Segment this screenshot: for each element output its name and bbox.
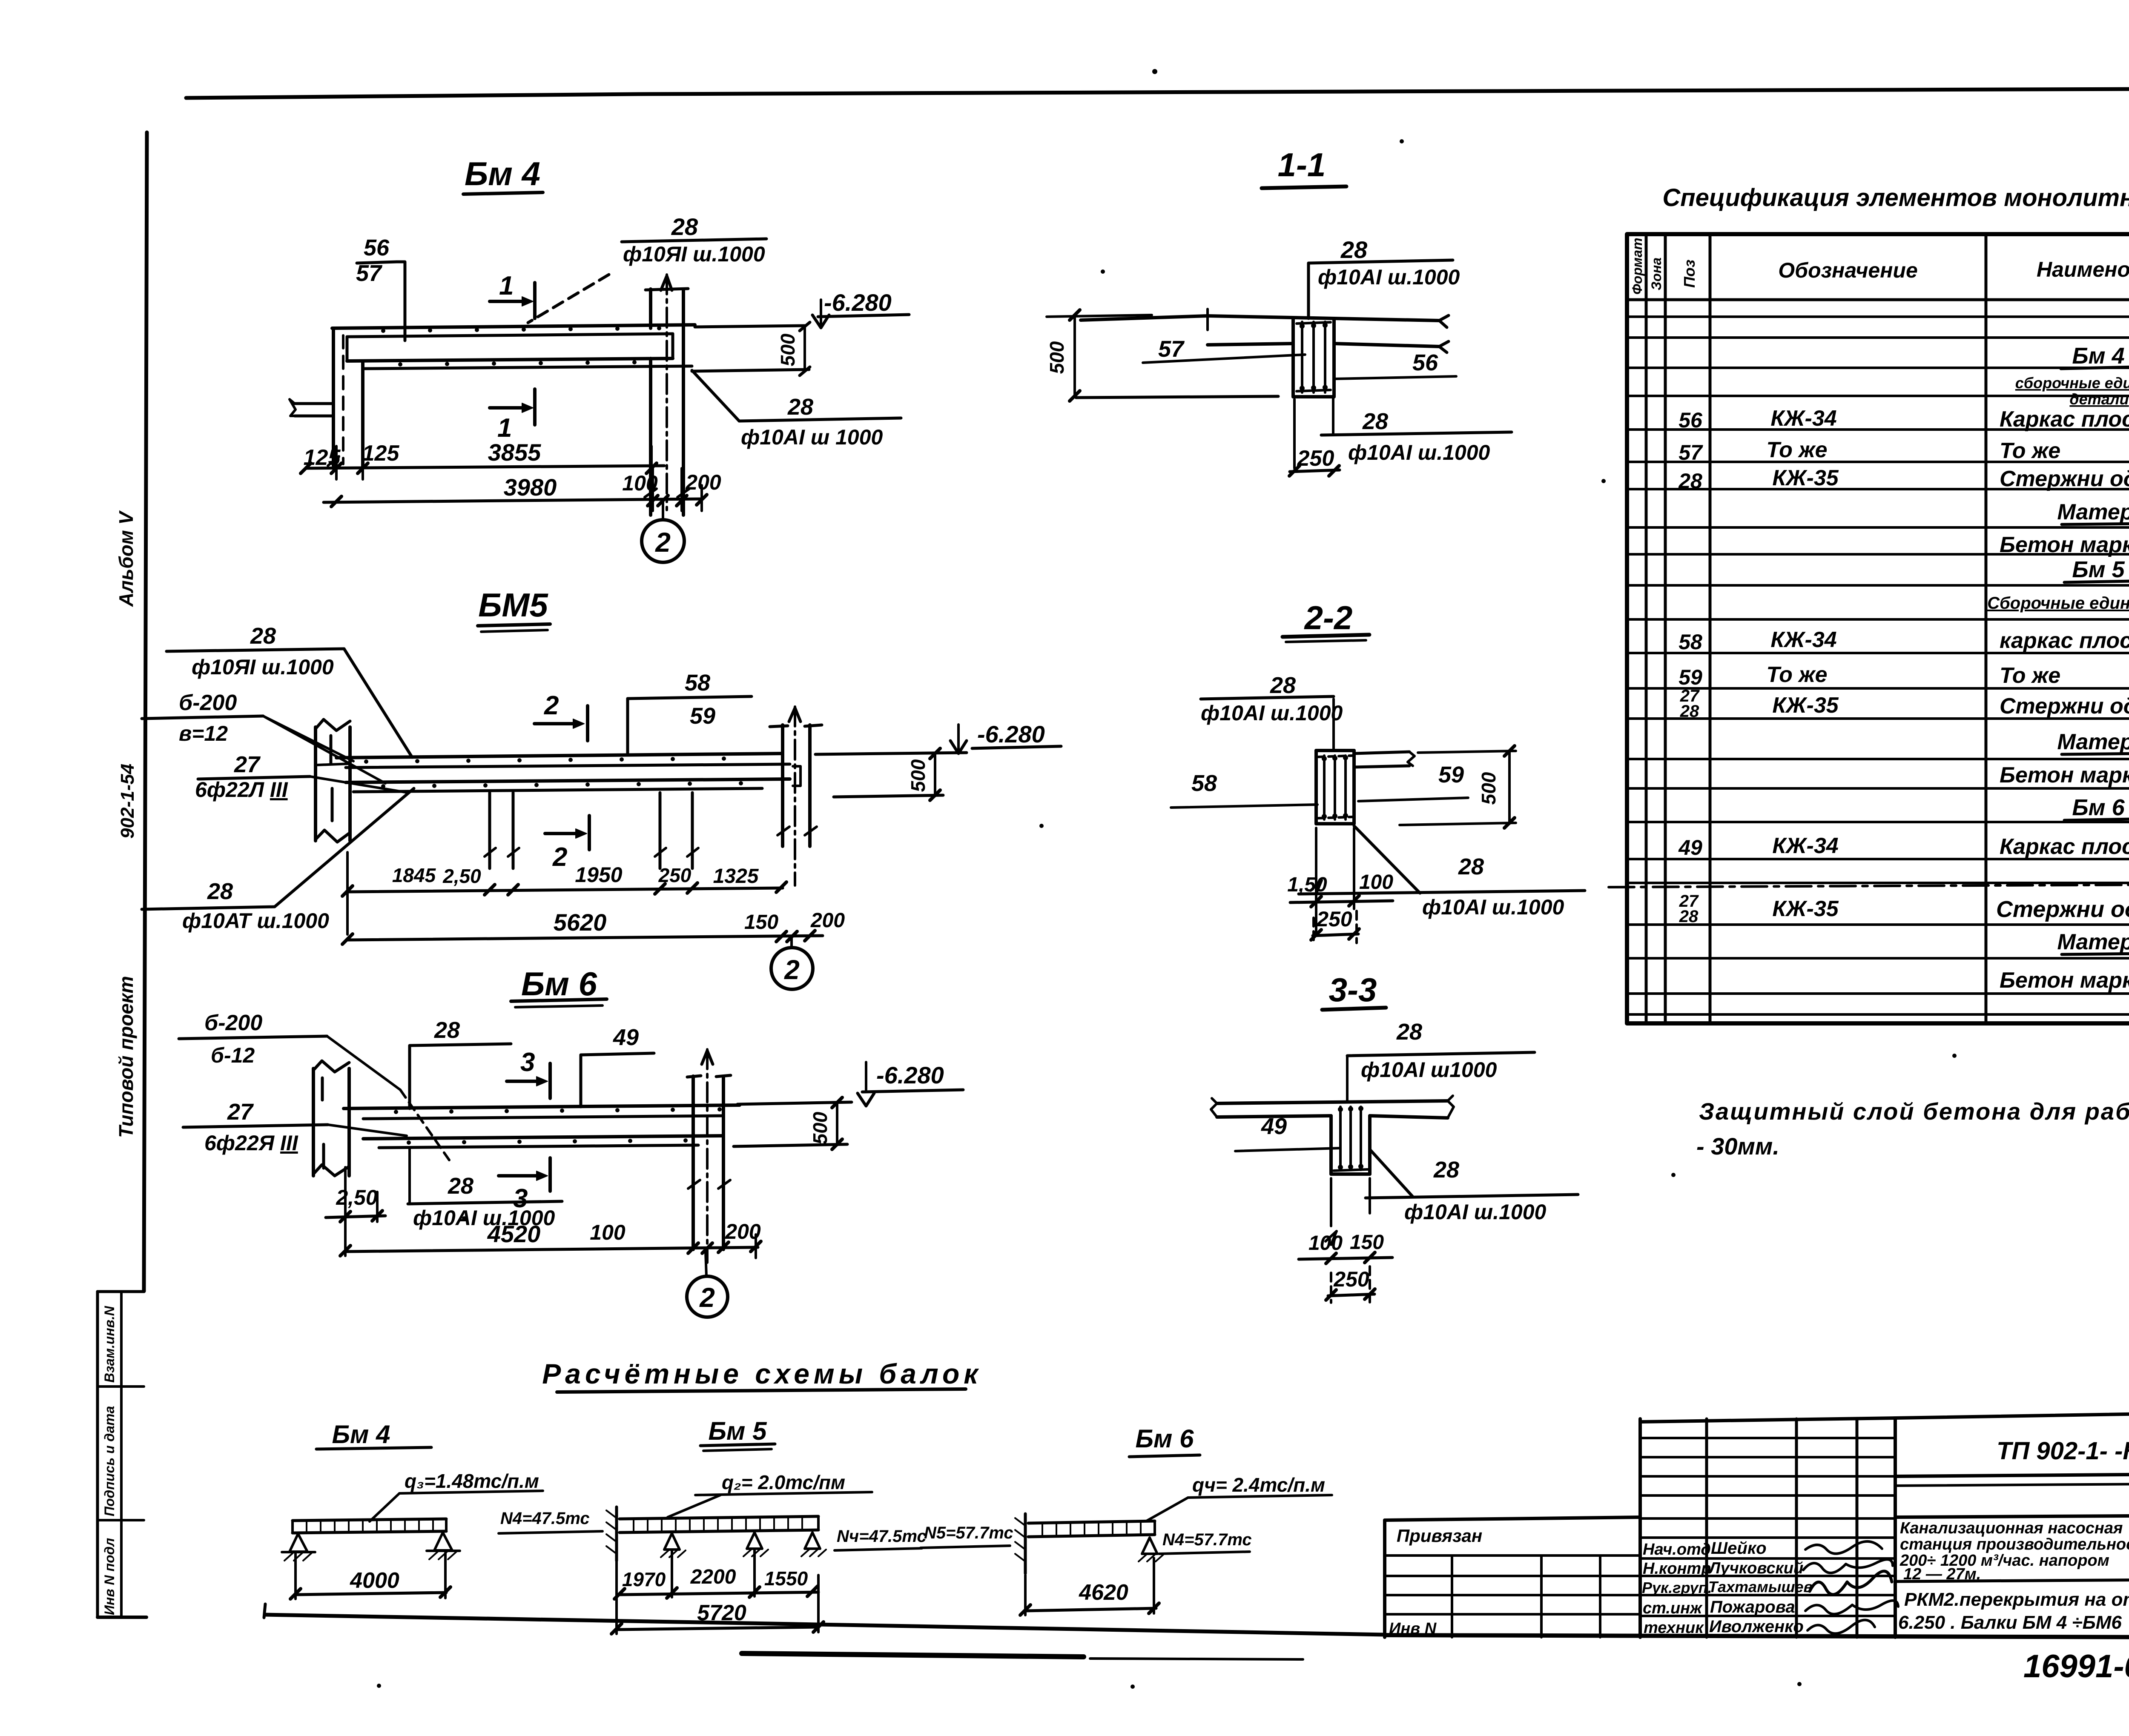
- svg-text:ст.инж: ст.инж: [1643, 1599, 1703, 1617]
- svg-text:Бм 4: Бм 4: [332, 1420, 390, 1449]
- svg-text:100: 100: [590, 1220, 626, 1244]
- dim row 125/125/3855: [306, 466, 664, 468]
- svg-text:2: 2: [699, 1282, 715, 1313]
- svg-text:1550: 1550: [764, 1567, 808, 1590]
- dim 500 BM5: [934, 753, 936, 796]
- svg-text:-6.280: -6.280: [876, 1062, 944, 1089]
- svg-text:б-200: б-200: [204, 1011, 262, 1035]
- svg-text:Стержни одиночные: Стержни одиночные: [2000, 694, 2129, 719]
- svg-text:500: 500: [777, 333, 799, 366]
- svg-text:57: 57: [356, 261, 383, 286]
- svg-text:200: 200: [810, 909, 845, 932]
- svg-text:250: 250: [1333, 1267, 1369, 1291]
- svg-text:27: 27: [227, 1099, 254, 1125]
- svg-text:q₃=1.48тс/п.м: q₃=1.48тс/п.м: [405, 1470, 539, 1492]
- svg-text:КЖ-35: КЖ-35: [1772, 693, 1839, 718]
- right slab stub 2-2: [1354, 752, 1409, 753]
- svg-text:250: 250: [658, 864, 691, 886]
- svg-text:28: 28: [448, 1173, 473, 1199]
- svg-text:28: 28: [1680, 702, 1699, 721]
- svg-text:500: 500: [1046, 341, 1068, 374]
- svg-text:2,50: 2,50: [336, 1186, 378, 1209]
- scheme BM5 beam bar: [620, 1516, 818, 1519]
- rebar dots BM6: [394, 1107, 722, 1145]
- right column BM6: [691, 1076, 695, 1249]
- svg-text:150: 150: [1350, 1231, 1384, 1254]
- svg-text:56: 56: [1412, 350, 1438, 375]
- svg-text:59: 59: [1438, 762, 1464, 788]
- svg-text:2: 2: [552, 842, 567, 872]
- svg-text:4520: 4520: [487, 1220, 541, 1247]
- svg-text:РКМ2.перекрытия на отм.-: РКМ2.перекрытия на отм.-: [1904, 1589, 2129, 1610]
- axis circle 2 BM5: [790, 937, 793, 948]
- svg-text:28: 28: [1270, 673, 1296, 698]
- svg-text:57: 57: [1158, 336, 1185, 362]
- svg-text:6.250 . Балки БМ 4 ÷БМ6: 6.250 . Балки БМ 4 ÷БМ6: [1898, 1612, 2122, 1633]
- right column axis 2: [649, 358, 652, 515]
- top border line: [186, 88, 2129, 98]
- svg-text:Иволженко: Иволженко: [1709, 1617, 1804, 1636]
- table header row line: [1627, 298, 2129, 301]
- svg-text:2,50: 2,50: [442, 865, 481, 887]
- svg-text:- 30мм.: - 30мм.: [1696, 1133, 1779, 1160]
- svg-text:б-12: б-12: [211, 1043, 255, 1067]
- svg-text:б-200: б-200: [179, 690, 237, 715]
- web rebar 2-2: [1323, 756, 1326, 819]
- svg-text:Материалы: Материалы: [2057, 930, 2129, 954]
- svg-text:200: 200: [685, 470, 721, 494]
- svg-text:-6.280: -6.280: [824, 289, 892, 316]
- section mark 2 (bottom): [545, 832, 583, 835]
- svg-text:ф10АІ ш.1000: ф10АІ ш.1000: [1404, 1200, 1547, 1224]
- svg-text:Обозначение: Обозначение: [1778, 258, 1918, 282]
- dim row 3980/100/200: [324, 499, 702, 502]
- scheme BM5 interior supports: [664, 1533, 680, 1550]
- svg-text:ТП 902-1- -КЖ.: ТП 902-1- -КЖ.: [1997, 1437, 2129, 1465]
- svg-text:5720: 5720: [697, 1601, 746, 1625]
- svg-text:1-1: 1-1: [1278, 146, 1326, 183]
- signature table frame: [1638, 1419, 1642, 1637]
- svg-text:КЖ-34: КЖ-34: [1770, 627, 1836, 652]
- web 3-3: [1329, 1116, 1333, 1174]
- svg-text:КЖ-34: КЖ-34: [1772, 834, 1838, 858]
- table row lines: [1627, 315, 2129, 318]
- svg-text:5620: 5620: [554, 909, 607, 936]
- axis circle 2: [662, 501, 664, 520]
- section mark 3 (bottom): [499, 1174, 543, 1177]
- svg-text:3: 3: [520, 1048, 535, 1077]
- title block: [1385, 1410, 2129, 1638]
- scan artifact lines: [742, 1653, 1303, 1659]
- svg-text:Тахтамышев: Тахтамышев: [1708, 1578, 1813, 1596]
- table column lines: [1645, 234, 1648, 1023]
- beam BM4 elevation: [290, 155, 909, 562]
- svg-text:Бм 4: Бм 4: [465, 155, 540, 192]
- svg-text:ф10АІ ш.1000: ф10АІ ш.1000: [1201, 701, 1343, 725]
- left border line: [144, 132, 147, 1291]
- svg-text:1325: 1325: [713, 865, 759, 888]
- section 3-3: [1211, 971, 1578, 1303]
- dim row 4520/100/200 BM6: [345, 1247, 758, 1252]
- svg-text:500: 500: [809, 1111, 831, 1144]
- right column BM5: [781, 725, 784, 846]
- svg-text:КЖ-35: КЖ-35: [1772, 466, 1839, 490]
- section 2-2: [1171, 599, 1585, 943]
- svg-text:БМ5: БМ5: [478, 586, 548, 624]
- svg-text:Бм 4: Бм 4: [2072, 343, 2124, 369]
- svg-text:Н.контр: Н.контр: [1643, 1560, 1711, 1578]
- leaders to level mark BM6: [737, 1102, 852, 1104]
- svg-text:2: 2: [655, 527, 671, 558]
- svg-text:28: 28: [1678, 469, 1702, 493]
- svg-text:ф10ЯІ ш.1000: ф10ЯІ ш.1000: [192, 655, 334, 679]
- left wall of BM4: [332, 328, 335, 466]
- left bracket ledge: [295, 402, 333, 405]
- svg-text:То же: То же: [2000, 438, 2060, 463]
- leader lines to level mark: [695, 326, 805, 327]
- leaders to level mark BM5: [815, 753, 967, 754]
- svg-text:200: 200: [725, 1220, 761, 1243]
- svg-text:Бетон марки м200: Бетон марки м200: [2000, 533, 2129, 557]
- svg-text:49: 49: [613, 1025, 639, 1050]
- svg-text:3855: 3855: [488, 439, 541, 466]
- svg-text:125: 125: [304, 445, 341, 470]
- slab band BM6: [344, 1105, 740, 1109]
- svg-text:1845: 1845: [392, 864, 436, 886]
- svg-text:100: 100: [622, 471, 658, 495]
- svg-text:Канализационная насосная: Канализационная насосная: [1900, 1519, 2123, 1537]
- scheme BM4 beam bar: [293, 1519, 446, 1521]
- svg-text:Бм 6: Бм 6: [2072, 795, 2125, 820]
- svg-text:4620: 4620: [1079, 1580, 1128, 1605]
- svg-text:1: 1: [497, 413, 512, 443]
- svg-text:2-2: 2-2: [1304, 599, 1353, 636]
- svg-text:Нач.отд: Нач.отд: [1643, 1541, 1711, 1558]
- beam web: [1291, 318, 1295, 397]
- svg-text:в=12: в=12: [179, 722, 228, 745]
- beam BM5 elevation: [142, 586, 1061, 989]
- svg-text:-6.280: -6.280: [977, 721, 1045, 748]
- svg-text:28: 28: [1396, 1019, 1422, 1045]
- svg-text:28: 28: [1679, 907, 1699, 926]
- svg-text:Взам.инв.N: Взам.инв.N: [102, 1306, 117, 1383]
- svg-text:техник: техник: [1644, 1619, 1704, 1637]
- svg-text:Наименование: Наименование: [2037, 258, 2129, 281]
- svg-text:Альбом V: Альбом V: [115, 510, 137, 607]
- axis circle 2 BM6: [706, 1252, 706, 1276]
- svg-text:59: 59: [690, 703, 715, 729]
- svg-text:500: 500: [1478, 772, 1500, 805]
- left sidebar column: [98, 510, 146, 1617]
- svg-text:Формат: Формат: [1630, 238, 1645, 295]
- svg-text:28: 28: [1433, 1157, 1459, 1183]
- svg-text:2200: 2200: [690, 1566, 736, 1588]
- svg-text:125: 125: [362, 441, 400, 466]
- svg-text:3-3: 3-3: [1329, 971, 1377, 1008]
- svg-text:N4=47.5тс: N4=47.5тс: [500, 1509, 590, 1528]
- svg-text:2: 2: [544, 691, 559, 720]
- bottom border line: [265, 1615, 1385, 1635]
- svg-text:49: 49: [1678, 836, 1702, 859]
- svg-text:Типовой проект: Типовой проект: [115, 976, 137, 1138]
- signatures squiggles: [1805, 1541, 1882, 1554]
- protective layer note: [1696, 1098, 2129, 1160]
- svg-text:250: 250: [1297, 446, 1334, 471]
- dim row 1845/250/1950/250/1325: [346, 852, 349, 934]
- scheme BM6 right support: [1142, 1538, 1157, 1554]
- svg-text:Бетон марки М200: Бетон марки М200: [2000, 968, 2129, 993]
- svg-text:4000: 4000: [350, 1568, 399, 1593]
- svg-text:Инв N: Инв N: [1389, 1620, 1437, 1638]
- svg-text:Подпись и дата: Подпись и дата: [102, 1406, 117, 1516]
- svg-text:Зона: Зона: [1649, 258, 1664, 290]
- rebar dots BM5: [364, 756, 743, 788]
- slab band BM5: [336, 753, 783, 758]
- svg-text:КЖ-35: КЖ-35: [1772, 897, 1839, 921]
- left attachment table: [1385, 1517, 1640, 1520]
- svg-text:То же: То же: [1766, 438, 1827, 462]
- document number handwritten: [2023, 1648, 2129, 1684]
- svg-text:1970: 1970: [622, 1568, 666, 1590]
- svg-text:49: 49: [1261, 1114, 1287, 1139]
- scheme BM5 left wall support: [615, 1507, 618, 1561]
- svg-text:Бм 5: Бм 5: [2072, 557, 2125, 582]
- svg-text:58: 58: [1679, 630, 1702, 654]
- slab lines: [1081, 316, 1439, 321]
- web 2-2: [1316, 749, 1354, 752]
- svg-text:Бм 6: Бм 6: [1136, 1424, 1194, 1453]
- specification table: [1609, 102, 2129, 1023]
- beam end bracket in column: [793, 766, 801, 786]
- scheme BM6 beam bar: [1028, 1521, 1155, 1523]
- svg-text:ф10АІ ш.1000: ф10АІ ш.1000: [1422, 895, 1564, 919]
- svg-text:Сборочные единицы и детали: Сборочные единицы и детали: [1987, 594, 2129, 613]
- svg-text:1: 1: [499, 271, 514, 301]
- svg-text:станция производительностью: станция производительностью: [1900, 1535, 2129, 1553]
- svg-text:Инв N подл: Инв N подл: [102, 1538, 117, 1615]
- svg-text:28: 28: [1458, 854, 1484, 879]
- dim 500 BM6: [836, 1103, 838, 1145]
- svg-text:Привязан: Привязан: [1397, 1526, 1482, 1546]
- calculation schemes: [282, 1358, 1332, 1634]
- svg-text:Бетон марки М200: Бетон марки М200: [2000, 763, 2129, 788]
- svg-text:Стержни одиночные: Стержни одиночные: [2000, 467, 2129, 491]
- svg-text:каркас плоский КР23: каркас плоский КР23: [2000, 628, 2129, 653]
- left wall BM6: [312, 1069, 315, 1176]
- svg-text:28: 28: [1362, 409, 1388, 434]
- svg-text:58: 58: [1191, 771, 1217, 796]
- web rebar 3-3: [1339, 1107, 1342, 1170]
- svg-text:ф10АТ ш.1000: ф10АТ ш.1000: [182, 909, 329, 933]
- svg-text:1950: 1950: [575, 863, 622, 887]
- svg-text:3980: 3980: [504, 474, 557, 501]
- svg-text:902-1-54: 902-1-54: [117, 764, 138, 839]
- svg-text:2: 2: [784, 954, 800, 985]
- svg-text:28: 28: [1340, 236, 1368, 263]
- svg-text:59: 59: [1679, 665, 1702, 689]
- svg-text:ф10АІ ш 1000: ф10АІ ш 1000: [741, 425, 883, 449]
- svg-text:16991-05 34: 16991-05 34: [2023, 1648, 2129, 1684]
- svg-text:Материалы: Материалы: [2057, 500, 2129, 524]
- svg-text:q₂= 2.0тс/пм: q₂= 2.0тс/пм: [722, 1471, 845, 1493]
- svg-text:детали: детали: [2069, 390, 2129, 408]
- rebar dots top: [381, 326, 661, 367]
- svg-text:Поз: Поз: [1681, 260, 1698, 288]
- svg-text:Каркас плоский КР21: Каркас плоский КР21: [2000, 407, 2129, 432]
- svg-text:Стержни одиночные: Стержни одиночные: [1996, 897, 2129, 922]
- svg-text:57: 57: [1679, 441, 1703, 464]
- section 1-1: [1046, 146, 1512, 476]
- svg-text:Рук.груп.: Рук.груп.: [1642, 1579, 1712, 1596]
- svg-text:Лучковский: Лучковский: [1708, 1559, 1803, 1577]
- svg-text:150: 150: [744, 911, 778, 934]
- sidebar stamp table: [96, 1292, 99, 1617]
- svg-text:28: 28: [787, 394, 813, 420]
- scheme BM4 left support: [290, 1534, 307, 1552]
- svg-text:28: 28: [434, 1017, 460, 1043]
- dim row 5620/150/200: [347, 936, 823, 940]
- svg-text:12 — 27м.: 12 — 27м.: [1903, 1565, 1981, 1583]
- left wall BM5: [314, 727, 317, 841]
- dim 500 vertical: [803, 326, 806, 371]
- svg-text:1,50: 1,50: [1287, 874, 1327, 896]
- svg-text:Спецификация элементов монолит: Спецификация элементов монолитной констр…: [1662, 184, 2129, 212]
- slab 3-3: [1217, 1101, 1448, 1103]
- fold dash-dot line: [1609, 884, 2129, 887]
- svg-text:Расчётные схемы балок: Расчётные схемы балок: [542, 1358, 982, 1389]
- svg-text:500: 500: [907, 759, 929, 792]
- svg-text:ф10АІ ш1000: ф10АІ ш1000: [1361, 1058, 1497, 1082]
- svg-text:250: 250: [1316, 907, 1352, 931]
- scheme BM6 left wall support: [1024, 1514, 1027, 1573]
- svg-text:ф10АІ ш.1000: ф10АІ ш.1000: [1318, 265, 1460, 289]
- svg-text:Бм 6: Бм 6: [521, 965, 597, 1003]
- svg-text:Материалы: Материалы: [2057, 730, 2129, 754]
- scan specks: [377, 69, 2129, 1689]
- svg-text:100: 100: [1359, 871, 1393, 894]
- svg-text:КЖ-34: КЖ-34: [1770, 406, 1836, 431]
- svg-text:56: 56: [364, 235, 390, 261]
- svg-text:Шейко: Шейко: [1711, 1539, 1767, 1558]
- svg-text:N5=57.7тс: N5=57.7тс: [924, 1524, 1013, 1542]
- table outer frame: [1627, 234, 2129, 1023]
- section mark 1 (bottom): [490, 406, 529, 410]
- svg-text:28: 28: [207, 879, 233, 904]
- beam BM6 elevation: [179, 965, 963, 1317]
- svg-text:То же: То же: [2000, 663, 2060, 688]
- svg-text:сборочные единицы и: сборочные единицы и: [2015, 374, 2129, 392]
- svg-text:ф10ЯІ ш.1000: ф10ЯІ ш.1000: [623, 242, 765, 266]
- svg-text:То же: То же: [1766, 662, 1827, 687]
- web rebar: [1301, 322, 1303, 392]
- svg-text:28: 28: [250, 623, 276, 649]
- dim 500 (left): [1073, 315, 1076, 396]
- scheme BM4 right support: [434, 1533, 452, 1550]
- svg-text:Каркас плоский КР18: Каркас плоский КР18: [2000, 834, 2129, 859]
- svg-text:Бм 5: Бм 5: [709, 1417, 768, 1445]
- svg-text:100: 100: [1308, 1232, 1343, 1255]
- beam slab outline: [332, 325, 695, 328]
- svg-text:27: 27: [234, 752, 261, 777]
- svg-text:qч= 2.4тс/п.м: qч= 2.4тс/п.м: [1192, 1474, 1325, 1496]
- svg-text:6ф22Л III: 6ф22Л III: [195, 778, 288, 802]
- dim 250 (bottom): [1293, 399, 1296, 468]
- svg-text:Nч=47.5тс: Nч=47.5тс: [837, 1527, 927, 1546]
- svg-text:Пожарова: Пожарова: [1710, 1598, 1795, 1616]
- svg-text:Защитный слой бетона для ра: Защитный слой бетона для рабочей арматур…: [1699, 1098, 2129, 1125]
- svg-text:28: 28: [671, 213, 698, 240]
- svg-text:ф10АІ ш.1000: ф10АІ ш.1000: [1348, 441, 1490, 464]
- svg-text:N4=57.7тс: N4=57.7тс: [1162, 1530, 1252, 1549]
- svg-text:56: 56: [1679, 408, 1703, 432]
- svg-text:58: 58: [685, 670, 710, 696]
- svg-text:6ф22Я III: 6ф22Я III: [204, 1131, 298, 1155]
- dim 500 (right): [1418, 751, 1516, 753]
- interior support stubs: [488, 793, 491, 868]
